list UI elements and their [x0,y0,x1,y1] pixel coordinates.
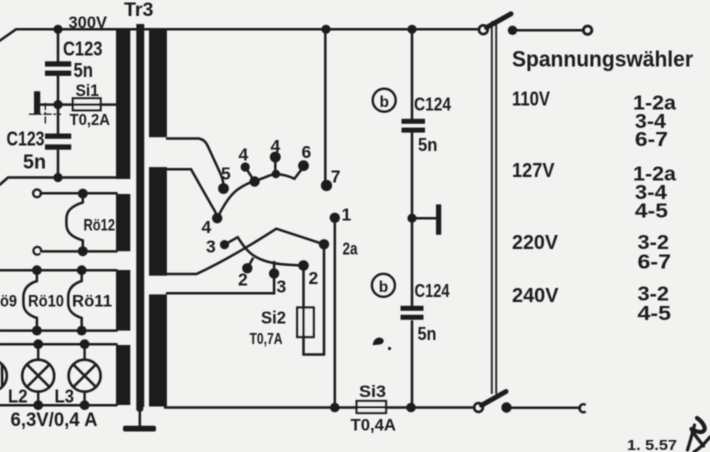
svg-text:4-5: 4-5 [638,303,672,325]
svg-text:5: 5 [221,164,231,184]
chassis dash-dot cross [30,104,61,127]
svg-text:C123: C123 [7,129,45,151]
svg-text:T0,2A: T0,2A [70,112,111,129]
svg-text:C124: C124 [414,94,452,115]
wire contact 7 vertical [324,29,327,183]
svg-text:C123: C123 [63,39,103,61]
svg-text:Si2: Si2 [261,308,286,328]
wire through Si3 [357,406,386,409]
svg-text:5n: 5n [418,324,437,344]
node Roe12 bottom [78,246,88,256]
wire 300V feed [0,29,117,40]
wire selector lower arc [238,237,304,265]
svg-text:220V: 220V [512,232,559,254]
wire stub 4b [274,157,277,174]
svg-text:5n: 5n [23,152,46,174]
svg-text:6,3V/0,4 A: 6,3V/0,4 A [11,409,98,431]
svg-text:b: b [379,279,388,296]
wire lower horizontal to transformer [0,178,117,185]
svg-text:C124: C124 [415,281,450,301]
svg-text:Rö10: Rö10 [28,293,64,311]
node L3 bottom [80,400,90,410]
svg-text:4: 4 [239,145,249,165]
transformer Tr3 right winding [149,30,167,407]
svg-text:Rö11: Rö11 [72,293,112,311]
node C124 bottom [406,403,416,413]
node 2 left [242,263,252,273]
svg-text:Rö9: Rö9 [0,293,17,311]
node top 7 branch [321,25,330,34]
wire lamp row top [0,343,117,346]
lamp L2 [22,344,54,405]
node 2 right [298,260,309,271]
svg-text:Spannungswähler: Spannungswähler [512,47,693,72]
heater Roe12 [66,194,82,251]
node L2 top [33,339,43,349]
wire selector upper arc [217,174,294,218]
wire contact 2a vertical [323,244,326,354]
switch link [492,22,496,393]
svg-text:4-5: 4-5 [635,201,668,223]
node 4 top [270,152,281,163]
wire Roe12 bottom [41,250,117,253]
node L3 top [80,339,90,349]
node Si1 junction [53,100,62,109]
label b1 [373,89,396,112]
fuse Si1 [58,98,117,110]
svg-text:6-7: 6-7 [638,252,672,274]
svg-text:b: b [380,94,389,111]
capacitor C124 (bottom) [401,218,424,407]
node 2a [319,239,329,249]
wire contact 1 vertical [334,218,337,408]
svg-text:300V: 300V [69,13,108,32]
wire stub 2 left [247,259,253,269]
svg-text:1. 5.57: 1. 5.57 [627,438,677,452]
node J2 [272,170,280,178]
wire through Si2 [302,308,305,338]
node L2 bottom [33,400,43,410]
node 7 [321,180,332,191]
svg-text:L2: L2 [8,386,28,407]
node 300V junction [53,25,62,34]
node Roe11 top [77,265,87,275]
svg-text:Si3: Si3 [359,382,386,401]
svg-text:T0,4A: T0,4A [351,417,397,435]
transformer Tr3 left winding [116,30,130,405]
wire top main [117,28,480,31]
node lower C123 junction [53,173,62,182]
svg-text:110V: 110V [512,89,551,111]
svg-text:127V: 127V [512,160,555,182]
svg-text:2: 2 [238,270,248,290]
ground [123,405,156,432]
svg-text:7: 7 [331,167,341,187]
node 4 upper [241,162,250,171]
svg-text:Rö12: Rö12 [84,217,116,235]
svg-text:2a: 2a [343,239,358,259]
squiggle mark [374,339,391,350]
node Roe11 bottom [77,326,87,336]
capacitor C123 (top) [45,61,71,76]
node T stub [407,214,416,223]
node 1 bottom [330,403,340,413]
node Roe12 top [78,189,88,199]
wire tent primary tap [167,229,324,274]
node Roe10 top [32,265,42,275]
wire heater row bottom [0,329,117,332]
wire C123 branch vertical [57,29,60,177]
heater Roe11 [68,270,82,330]
fuse Si3 [357,401,386,413]
svg-text:T0,7A: T0,7A [250,331,283,348]
chassis stub [34,91,58,114]
fuse Si2 [297,308,314,338]
node 5 [218,183,229,194]
svg-text:1: 1 [342,205,352,225]
lamp L3 [69,344,101,405]
svg-text:240V: 240V [512,285,559,307]
svg-text:3: 3 [277,276,287,296]
terminal Roe12 bottom [33,247,41,255]
node Roe10 bottom [32,326,42,336]
svg-text:L3: L3 [55,386,75,407]
node 3 left [220,240,229,249]
chassis T stub [412,204,441,234]
label b2 [372,274,395,297]
transformer Tr3 core [136,24,144,407]
node J1 [249,176,259,186]
wire lamp row bottom [0,404,117,407]
capacitor C123 (bottom) [45,134,71,150]
svg-text:6: 6 [302,142,312,162]
wire stub 4a [245,167,254,182]
wire stub 6 [294,168,303,179]
wire tap to contact 4 lower [167,169,217,218]
wire Roe12 top [41,192,117,195]
node 4 low [212,213,222,223]
svg-text:2: 2 [309,268,319,288]
svg-text:5n: 5n [74,60,94,82]
switch top [479,14,592,35]
wire contact 2 to fuse Si2 [304,266,325,355]
terminal Roe12 top [33,189,41,197]
svg-text:Tr3: Tr3 [124,0,154,21]
svg-text:4: 4 [271,136,281,156]
svg-text:Si1: Si1 [76,82,100,100]
capacitor C124 (top) [402,29,426,218]
wire lower horizontal tap [167,262,274,293]
wire bottom main [165,406,475,409]
svg-text:6-7: 6-7 [635,129,668,151]
wire tap to contact 5 [167,139,223,185]
lamp L1 (partial) [0,360,7,392]
svg-text:4: 4 [202,217,212,237]
node top C124 branch [407,25,416,34]
node 1 [330,213,340,223]
wire stub 3 left [225,237,238,244]
svg-text:5n: 5n [418,134,438,155]
node 3 bottom [269,268,279,278]
svg-text:3-2: 3-2 [638,232,670,254]
switch bottom [474,392,585,413]
heater Roe10 [23,270,37,330]
signature mark [688,418,710,452]
node 6 [298,160,309,171]
svg-text:3: 3 [206,237,216,257]
wire heater row top [0,269,117,272]
